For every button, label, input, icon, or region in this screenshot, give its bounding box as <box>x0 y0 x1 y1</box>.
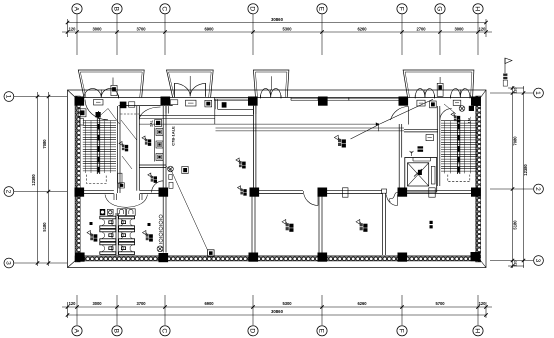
axis bubble F top <box>397 4 407 14</box>
right stair landing dashed <box>448 175 470 182</box>
porch1 pole fixture <box>111 78 117 96</box>
squat WC right 2 <box>119 229 135 241</box>
axis bubble B bottom <box>112 326 122 336</box>
axis bubble E top <box>317 4 327 14</box>
column A3 <box>75 253 85 262</box>
toilet east wall at C <box>163 196 166 253</box>
svg-text:5180: 5180 <box>42 222 47 232</box>
toilet entry door arcs <box>105 195 148 208</box>
squat WC left 3 <box>100 242 116 254</box>
top outer extension line left <box>67 19 69 37</box>
axis bubble C top <box>160 4 170 14</box>
axis bubble 3 left <box>4 258 14 268</box>
column F1 <box>399 97 409 106</box>
apron chamfer top-right <box>481 90 487 98</box>
row-2 wall mid segment <box>258 191 303 194</box>
svg-text:6260: 6260 <box>357 26 367 31</box>
elevator symbol dot <box>414 169 422 177</box>
svg-text:30860: 30860 <box>271 17 284 22</box>
svg-text:1AL: 1AL <box>468 117 472 123</box>
foyer fixture box 1 <box>417 100 425 106</box>
foyer black box <box>469 106 474 111</box>
toilet door jamb left <box>114 194 117 200</box>
svg-text:1: 1 <box>534 91 541 95</box>
cap box above C2 <box>169 182 173 188</box>
wire curl at F2 <box>389 192 398 202</box>
porch2 wall fixture box <box>186 100 197 106</box>
svg-text:5700: 5700 <box>435 301 445 306</box>
wire diagonal to porch <box>379 99 433 124</box>
svg-text:120: 120 <box>69 26 77 31</box>
foyer fixture box 2 <box>453 100 461 105</box>
axis bubble H top <box>473 4 483 14</box>
corridor diagonal 2 <box>122 156 132 169</box>
wire run B <box>139 117 215 119</box>
svg-text:120: 120 <box>69 301 77 306</box>
wall fixture rect near C <box>170 100 178 105</box>
hall door arc near corridor <box>139 107 160 120</box>
toilet flag right <box>143 231 153 242</box>
column F2 <box>398 188 408 197</box>
right connector line 1 <box>490 92 533 94</box>
top dimension texts <box>69 26 487 31</box>
column H1 <box>471 97 481 106</box>
porch canopy 1 <box>78 70 144 98</box>
apron chamfer top-left <box>68 90 76 98</box>
right stair west wall <box>437 106 440 186</box>
axis bubble C bottom <box>160 326 170 336</box>
svg-text:2AL: 2AL <box>150 120 154 126</box>
apron chamfer bottom-right <box>481 261 487 268</box>
right stair treads <box>441 121 477 174</box>
column C2 <box>159 188 169 197</box>
left overall dimension line 12380 <box>31 92 39 266</box>
svg-text:120: 120 <box>479 301 487 306</box>
left stair stringer <box>97 118 99 174</box>
lobby west wall <box>399 124 402 192</box>
svg-text:2: 2 <box>5 190 12 194</box>
double door porch 4 right <box>451 89 470 99</box>
svg-text:E: E <box>318 7 325 12</box>
porch canopy 4 <box>403 70 474 98</box>
axis bubble 1 right <box>534 88 544 98</box>
elevator car <box>408 163 429 186</box>
left wall hatched band <box>75 96 80 262</box>
left stair landing dashed <box>87 175 107 184</box>
svg-text:7080: 7080 <box>513 136 518 146</box>
column C1 <box>161 97 171 106</box>
svg-text:3000: 3000 <box>92 26 102 31</box>
svg-text:3700: 3700 <box>136 301 146 306</box>
svg-text:120: 120 <box>479 26 487 31</box>
svg-text:5300: 5300 <box>282 26 292 31</box>
room flag E-F <box>356 220 368 232</box>
foyer diagonal conduit <box>444 104 456 114</box>
toilet x-circle box <box>100 209 105 215</box>
svg-text:2700: 2700 <box>416 26 426 31</box>
svg-text:120: 120 <box>514 261 518 267</box>
corridor east wall <box>137 106 140 191</box>
right overall dimension line 12380 <box>522 86 528 268</box>
lobby fixture dots <box>418 146 424 152</box>
svg-text:6900: 6900 <box>204 301 214 306</box>
door frame box row-2 <box>429 188 435 197</box>
panel top box <box>155 120 162 127</box>
axis bubble E bottom <box>317 326 327 336</box>
left wall small fixture <box>79 118 83 125</box>
column C3 <box>159 253 169 262</box>
svg-text:1: 1 <box>5 95 12 99</box>
top overall dimension line 30860 <box>66 17 488 24</box>
bottom dimension texts <box>69 301 487 306</box>
lamp diagonal conduit <box>172 172 208 250</box>
MD box <box>426 135 433 141</box>
squat WC left 2 <box>100 229 116 241</box>
lobby Y-switch <box>410 151 414 156</box>
wall spur below D1 <box>254 106 256 114</box>
toilet switch box <box>108 209 114 215</box>
double door porch 1 <box>84 89 119 99</box>
top outer extension line right <box>485 19 487 37</box>
svg-text:6900: 6900 <box>204 26 214 31</box>
svg-text:H: H <box>474 6 481 11</box>
bottom outer extension right <box>485 302 487 318</box>
wire run E <box>216 130 405 132</box>
hall partition at D <box>253 106 256 191</box>
foyer x-box <box>430 101 437 108</box>
svg-text:G: G <box>436 6 443 11</box>
column D1 <box>248 97 258 106</box>
sill line below C-D window <box>218 108 254 110</box>
axis bubble 1 left <box>4 92 14 102</box>
left wall x-box fixture <box>79 109 86 117</box>
svg-text:5180: 5180 <box>513 220 518 230</box>
axis bubble B top <box>112 4 122 14</box>
left stair treads <box>83 121 116 174</box>
wire riser C-D <box>214 100 216 125</box>
svg-text:A: A <box>73 329 80 334</box>
door frame box row-2 b <box>343 188 349 197</box>
foyer x-circle <box>459 106 465 112</box>
toilet flag left <box>87 231 97 242</box>
corridor flag <box>119 142 128 152</box>
toilet door jamb right <box>140 194 143 200</box>
hall west wall at C <box>163 106 166 191</box>
svg-text:7080: 7080 <box>42 139 47 149</box>
foyer flag <box>451 113 460 123</box>
room below electrical flag <box>148 173 157 183</box>
ribbon windows top wall <box>215 98 400 101</box>
svg-text:5300: 5300 <box>282 301 292 306</box>
stair box diagonal <box>101 109 108 116</box>
right connector line 2 <box>490 188 533 190</box>
bottom segment dimension line <box>62 305 492 308</box>
row-2 wall east segment <box>327 191 471 194</box>
svg-text:3: 3 <box>534 259 541 263</box>
door arc room F-H <box>387 195 398 206</box>
reference flag top-right <box>503 58 512 86</box>
axis bubble 2 right <box>534 184 544 194</box>
porch canopy 3 <box>253 70 289 98</box>
porch4 pole fixture <box>437 77 443 96</box>
svg-text:C7B-1ALE: C7B-1ALE <box>171 126 176 146</box>
column E3 <box>318 253 328 262</box>
svg-text:A: A <box>73 7 80 12</box>
black fixture stair wall <box>119 183 125 188</box>
porch2 x-box fixture <box>205 100 212 107</box>
axis bubble H bottom <box>473 326 483 336</box>
axis bubble F bottom <box>397 326 407 336</box>
small rect below x-circle <box>169 175 172 180</box>
wash basins <box>159 215 162 244</box>
axis bubble 2 left <box>4 187 14 197</box>
wire run D <box>216 127 405 129</box>
wire run C <box>139 122 379 131</box>
electrical room south wall <box>139 165 166 168</box>
urinal box 1 <box>117 209 126 216</box>
black fixture box corridor top <box>120 102 135 109</box>
x-circle fixture hall-west <box>168 166 174 172</box>
elevator shaft outer <box>405 158 437 193</box>
bottom overall dimension line 30860 <box>66 309 488 317</box>
left segment dimension line <box>47 92 50 266</box>
stair black box fixture <box>96 112 101 118</box>
electrical room flag <box>142 136 151 146</box>
porch canopy 2 <box>167 70 214 98</box>
svg-text:30860: 30860 <box>271 309 284 314</box>
corridor diagonal conduit <box>121 120 137 140</box>
room fixture dots F-H <box>430 221 433 229</box>
top exterior wall <box>75 98 481 106</box>
svg-text:12380: 12380 <box>31 174 36 186</box>
axis bubble D top <box>248 4 258 14</box>
stair diagonal conduit <box>108 109 120 125</box>
distribution panel AL1 <box>155 128 164 162</box>
svg-text:F: F <box>398 7 405 11</box>
bottom wall hatched band <box>75 256 481 261</box>
squat WC right 1 <box>119 216 135 228</box>
stair wall shaft box <box>118 173 122 183</box>
right connector apron top <box>508 87 524 89</box>
svg-text:3000: 3000 <box>454 26 464 31</box>
partition wall mid-east <box>382 189 387 255</box>
svg-text:C: C <box>161 6 168 11</box>
column F3 <box>398 253 408 262</box>
axis bubble A top <box>72 4 82 14</box>
double door porch 3 <box>260 89 281 99</box>
svg-text:6260: 6260 <box>357 301 367 306</box>
apron chamfer bottom-left <box>68 261 76 268</box>
corridor dashed wire <box>121 113 140 115</box>
column E2 <box>318 188 328 197</box>
left connector line 2 <box>14 191 67 193</box>
svg-text:12380: 12380 <box>523 164 528 176</box>
elevator door notch <box>413 158 431 162</box>
double door porch 2 <box>174 76 205 97</box>
row-2 wall west segment <box>84 191 159 194</box>
right wall hatched band <box>476 96 481 262</box>
svg-text:B: B <box>113 329 120 334</box>
wire run A <box>139 114 253 116</box>
top axis extension lines <box>77 14 478 55</box>
urinal box 2 <box>127 209 136 216</box>
stair inner door arc <box>85 100 108 120</box>
lobby north wall <box>404 130 438 132</box>
axis bubble 3 right <box>534 256 544 266</box>
svg-text:D: D <box>249 328 256 333</box>
svg-text:E: E <box>318 329 325 334</box>
partition wall at E <box>319 196 322 253</box>
svg-text:3: 3 <box>5 261 12 265</box>
column H3 <box>471 252 481 261</box>
porch3 centre pole <box>271 76 273 90</box>
hall x-box fixture <box>182 167 188 174</box>
hall ceiling flag <box>334 135 346 147</box>
wall spur below C1 <box>166 106 168 113</box>
column A1 <box>75 97 85 106</box>
svg-text:B: B <box>113 7 120 12</box>
column E1 <box>318 97 328 106</box>
svg-text:D: D <box>249 6 256 11</box>
door arc room below electrical <box>152 181 164 193</box>
svg-text:3700: 3700 <box>136 26 146 31</box>
partition wall at D <box>252 196 255 253</box>
squat WC left 1 <box>100 216 116 228</box>
svg-text:C: C <box>161 328 168 333</box>
door arc room D-E <box>304 191 319 206</box>
room flag D-E <box>282 220 294 232</box>
column D3 <box>249 253 259 262</box>
svg-text:3000: 3000 <box>92 301 102 306</box>
right segment dimension line <box>511 86 514 268</box>
squat WC right 3 <box>119 242 135 254</box>
svg-text:2: 2 <box>534 187 541 191</box>
toilet dot left <box>90 222 93 225</box>
axis bubble G top <box>435 4 445 14</box>
toilet center wall <box>116 213 118 255</box>
left stair east wall <box>118 106 121 193</box>
ceiling lamp box <box>208 250 215 257</box>
elevator door slot <box>431 166 435 184</box>
left connector line 3 <box>14 262 67 264</box>
svg-text:F: F <box>398 329 405 333</box>
hall fixture pair <box>236 158 246 168</box>
black fixture C-D <box>222 102 227 107</box>
lamp diagonal upper <box>166 166 172 172</box>
left connector line 1 <box>14 96 67 98</box>
right stair door arc <box>440 109 452 121</box>
svg-text:H: H <box>474 328 481 333</box>
top segment dimension line <box>62 30 492 33</box>
bottom axis extension lines <box>77 295 478 325</box>
right connector apron bottom <box>508 265 524 267</box>
axis bubble D bottom <box>248 326 258 336</box>
foyer door arc <box>391 107 409 125</box>
left stair arrow <box>97 111 100 119</box>
toilet dot right <box>148 223 151 226</box>
right stair stringer <box>457 119 459 174</box>
wall fixture box A-top <box>94 100 104 106</box>
flag diagonal to wire <box>351 125 379 139</box>
bottom outer extension left <box>67 302 69 318</box>
axis bubble A bottom <box>72 326 82 336</box>
double door porch 4 left <box>415 89 434 99</box>
svg-text:120: 120 <box>514 88 518 94</box>
wall spur mid C-D <box>215 100 217 110</box>
column H2 <box>471 188 481 197</box>
column A2 <box>75 188 85 197</box>
hall flag near D2 <box>238 186 247 196</box>
right connector line 3 <box>490 260 533 262</box>
column D2 <box>250 188 260 197</box>
apron outline <box>68 90 487 268</box>
floor drain x-circle <box>157 246 163 252</box>
